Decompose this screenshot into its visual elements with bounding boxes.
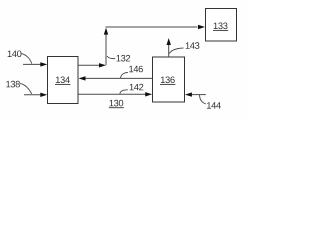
wire 134 output horizontal segment to riser: [78, 63, 106, 67]
leader 146: [121, 72, 129, 78]
wire riser 132 vertical with up arrow: [104, 28, 108, 66]
leader 140: [21, 54, 32, 64]
leader 143: [169, 48, 183, 54]
leader 142: [120, 90, 128, 94]
wire 144 input arrow into 136 right side: [185, 92, 206, 96]
label 134: [55, 77, 70, 85]
wire top run into 133: [106, 25, 206, 29]
wire 142 arrow from 134 into 136: [78, 92, 152, 96]
block 134: [48, 57, 79, 104]
wire input 140 arrow into 134: [23, 62, 47, 66]
leader 132: [107, 56, 115, 59]
leader 138: [20, 84, 32, 95]
leader 144: [200, 95, 206, 104]
label 133: [213, 23, 228, 31]
label 138: [6, 81, 20, 88]
wire 146 feedback arrow from 136 into 134: [79, 76, 153, 80]
block 133: [206, 9, 237, 42]
label 132: [117, 55, 131, 62]
label 144: [207, 102, 221, 108]
label 140: [8, 51, 22, 58]
label 146: [129, 66, 143, 73]
wire 143 output arrow up from 136: [167, 38, 171, 57]
label 142: [130, 84, 144, 90]
wire input 138 arrow into 134: [24, 93, 47, 97]
figure number 130: [109, 100, 124, 108]
label 143: [186, 42, 200, 49]
label 136: [160, 77, 175, 85]
block 136: [153, 57, 185, 102]
